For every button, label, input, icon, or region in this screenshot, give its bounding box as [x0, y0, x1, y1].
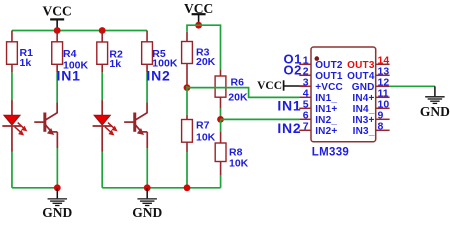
U1 pin number 13	[378, 65, 390, 77]
U1 pin 4 lead	[299, 96, 311, 98]
pin R1 top	[11, 31, 13, 42]
net label IN1 left	[57, 68, 81, 84]
U1 part label LM339	[312, 147, 349, 159]
junction R7/ground rail	[184, 184, 191, 191]
svg-text:GND: GND	[420, 104, 450, 119]
wire ground rail 2	[102, 187, 220, 189]
pin R3 top	[186, 32, 188, 42]
net label IN2 at pin 7	[277, 120, 301, 136]
light arrows of D2	[105, 123, 118, 136]
svg-text:1k: 1k	[20, 57, 32, 69]
resistor R6	[215, 76, 248, 104]
svg-text:IN2+: IN2+	[315, 126, 337, 137]
U1 pin 12 lead	[376, 85, 390, 87]
svg-text:IN3_: IN3_	[353, 126, 375, 137]
junction R3/R7 node	[184, 84, 191, 91]
U1 pin number 5	[303, 98, 309, 110]
pin R5 bottom	[146, 64, 148, 72]
U1 pin number 1	[303, 54, 309, 66]
U1 pin number 7	[303, 120, 309, 132]
junction VCC2 tap	[195, 22, 202, 29]
junction VCC1/R4 tap	[54, 27, 61, 34]
pin R8 top	[220, 132, 222, 143]
U1 pin name IN3_	[353, 126, 375, 137]
svg-text:20K: 20K	[196, 56, 216, 68]
U1 pin name IN2+	[315, 126, 337, 137]
power terminal VCC2	[184, 1, 213, 25]
pin R2 top	[101, 31, 103, 43]
wire D1 cathode down	[11, 152, 13, 188]
ground GND3	[420, 86, 450, 119]
svg-text:IN1: IN1	[277, 97, 301, 113]
pin R7 bottom	[186, 142, 188, 152]
U1 pin name IN1_	[315, 93, 337, 104]
pin R6 bottom	[220, 97, 222, 108]
svg-text:OUT4: OUT4	[347, 71, 375, 82]
net label IN2 left	[146, 68, 170, 84]
U1 pin number 2	[303, 65, 309, 77]
svg-text:LM339: LM339	[312, 147, 349, 159]
pin R2 bottom	[101, 64, 103, 72]
U1 pin name IN1+	[315, 104, 337, 115]
ground GND2	[132, 188, 162, 220]
U1 pin number 3	[303, 76, 309, 88]
U1 pin name OUT3	[347, 60, 375, 71]
wire ground rail 1	[12, 187, 57, 189]
U1 pin name +VCC	[315, 82, 343, 93]
junction R2 tap	[99, 27, 106, 34]
U1 pin name GND	[352, 82, 375, 93]
U1 pin 10 lead	[376, 107, 390, 109]
LED D2	[93, 100, 112, 151]
U1 pin name OUT4	[347, 71, 375, 82]
U1 pin number 8	[378, 120, 384, 132]
resistor R3	[182, 42, 216, 69]
U1 pin number 9	[378, 109, 384, 121]
resistor R5	[142, 42, 178, 70]
U1 pin 11 lead	[376, 96, 390, 98]
svg-text:IN4_: IN4_	[353, 104, 375, 115]
svg-text:O2: O2	[284, 63, 302, 78]
svg-text:R7: R7	[196, 120, 210, 132]
resistor R7	[182, 120, 216, 144]
svg-text:IN4+: IN4+	[352, 93, 374, 104]
wire D2 cathode down	[101, 152, 103, 188]
wire Q2 emitter down	[146, 148, 148, 188]
svg-text:GND: GND	[352, 82, 375, 93]
U1 pin 9 lead	[376, 118, 390, 120]
wire R3/R7 node down	[186, 86, 188, 115]
junction GND2	[144, 184, 151, 191]
svg-text:20K: 20K	[228, 92, 248, 104]
svg-text:IN2: IN2	[277, 120, 301, 136]
svg-text:VCC: VCC	[43, 3, 72, 18]
U1 pin name IN4_	[353, 104, 375, 115]
svg-text:IN3+: IN3+	[352, 115, 374, 126]
resistor R8	[215, 143, 248, 170]
wire R8 top	[220, 119, 222, 131]
wire R6 bottom to node	[220, 108, 222, 119]
U1 pin 2 lead	[299, 74, 311, 76]
wire net IN2 (R5 to Q2)	[146, 72, 148, 102]
pin R8 bottom	[220, 162, 222, 176]
U1 pin name OUT2	[315, 60, 343, 71]
wire R7 to ground rail	[186, 152, 188, 188]
svg-text:IN1: IN1	[57, 68, 81, 84]
net label O1	[284, 52, 302, 67]
resistor R1	[7, 42, 34, 69]
svg-text:OUT1: OUT1	[315, 71, 343, 82]
pin R3 bottom	[186, 64, 188, 87]
svg-text:R4: R4	[63, 48, 77, 60]
transistor Q1	[34, 103, 57, 148]
U1 pin 13 lead	[376, 74, 390, 76]
U1 pin number 4	[303, 87, 309, 99]
U1 pin name IN3+	[352, 115, 374, 126]
pin R7 top	[186, 115, 188, 120]
pin R1 bottom	[11, 64, 13, 72]
junction R6/R8 node	[217, 116, 224, 123]
net label IN1 at pin 5	[277, 97, 301, 113]
U1 pin 14 lead	[376, 63, 390, 65]
svg-text:OUT2: OUT2	[315, 60, 343, 71]
svg-text:7: 7	[303, 120, 309, 132]
svg-text:+VCC: +VCC	[315, 82, 343, 93]
U1 pin name OUT1	[315, 71, 343, 82]
U1 pin 8 lead	[376, 129, 390, 131]
U1 pin 5 lead	[299, 107, 311, 109]
svg-text:10K: 10K	[229, 158, 249, 170]
svg-text:IN2_: IN2_	[315, 115, 337, 126]
power terminal VCC1	[43, 3, 72, 30]
svg-text:8: 8	[378, 120, 384, 132]
U1 pin 3 lead	[299, 85, 311, 87]
wire net IN1 (R4 to Q1)	[56, 72, 58, 102]
svg-text:GND: GND	[132, 205, 162, 220]
wire R8 to ground rail	[220, 176, 222, 188]
U1 pin number 6	[303, 109, 309, 121]
U1 pin 7 lead	[299, 129, 311, 131]
op-amp U1 body	[311, 47, 376, 142]
svg-text:OUT3: OUT3	[347, 60, 375, 71]
U1 pin number 10	[378, 98, 390, 110]
U1 pin 1 lead	[299, 63, 311, 65]
svg-text:1k: 1k	[109, 58, 121, 70]
wire VCC rail 1	[12, 30, 147, 32]
svg-text:IN1+: IN1+	[315, 104, 337, 115]
svg-text:GND: GND	[42, 205, 72, 220]
pin R6 top	[220, 70, 222, 76]
U1 pin-1 marker dot	[315, 56, 320, 61]
pin R5 top	[146, 31, 148, 42]
junction GND1	[54, 184, 61, 191]
transistor Q2	[124, 103, 147, 148]
wire R2 to D2	[101, 72, 103, 100]
svg-text:VCC: VCC	[257, 80, 282, 92]
U1 pin name IN4+	[352, 93, 374, 104]
svg-text:IN2: IN2	[146, 68, 170, 84]
svg-text:IN1_: IN1_	[315, 93, 337, 104]
U1 pin name IN2_	[315, 115, 337, 126]
wire VCC rail 2	[187, 25, 221, 69]
net label O2	[284, 63, 302, 78]
wire Q1 emitter down	[56, 148, 58, 188]
wire R1 to D1	[11, 72, 13, 100]
pin R4 top	[56, 31, 58, 42]
light arrows of D1	[15, 123, 28, 136]
resistor R4	[52, 42, 89, 72]
LED D1	[2, 100, 21, 151]
U1 pin number 12	[378, 76, 390, 88]
power terminal VCC3 at pin 3	[257, 80, 305, 92]
svg-text:10K: 10K	[196, 132, 216, 144]
pin R4 bottom	[56, 64, 58, 72]
wire node to pin IN1_ (pin4)	[187, 88, 299, 98]
U1 pin number 14	[378, 54, 390, 66]
wire node to pin IN2_ (pin6)	[221, 118, 300, 120]
resistor R2	[97, 42, 123, 70]
wire pin 12 to ground	[390, 85, 435, 87]
svg-text:R6: R6	[231, 76, 245, 88]
U1 pin number 11	[378, 87, 389, 99]
ground GND1	[42, 188, 72, 220]
U1 pin 6 lead	[299, 118, 311, 120]
